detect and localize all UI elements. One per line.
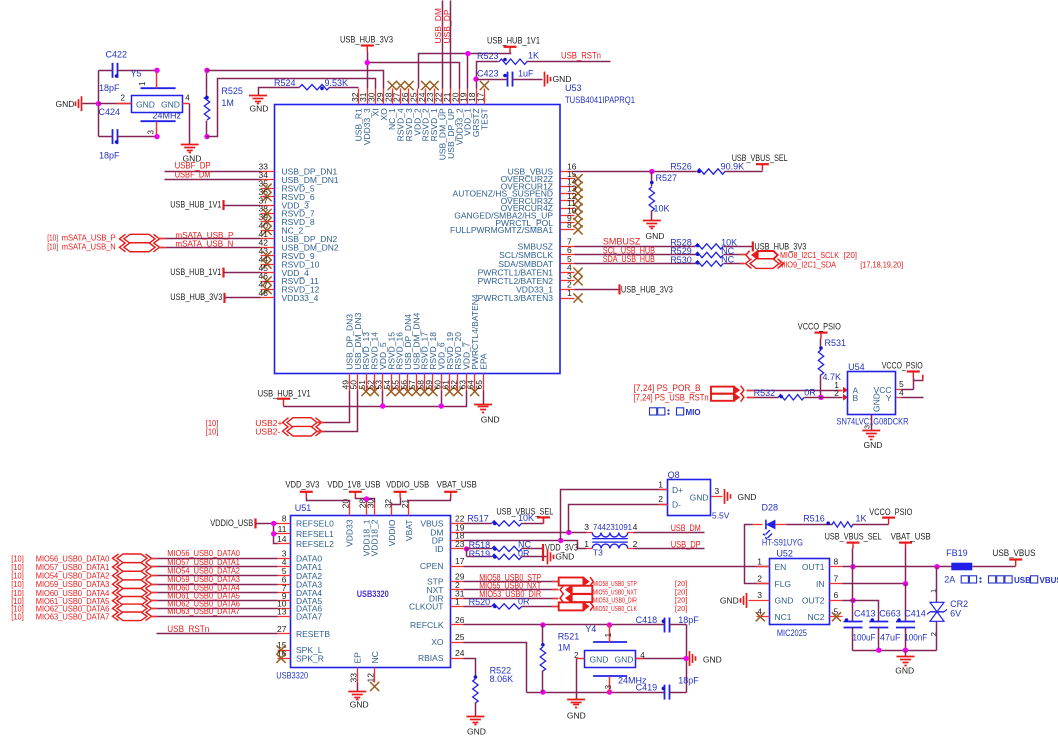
U53 pin 62 RSVD_20 xyxy=(457,374,459,391)
wire C424 right lead xyxy=(118,136,157,138)
junction R525 top xyxy=(204,68,209,73)
U51 pin 15 SPK_L xyxy=(278,650,291,652)
offpage connector MIO53_USB0_DIR xyxy=(560,594,564,603)
ground below EPA xyxy=(474,404,492,406)
U51 pin 5 DATA2 xyxy=(278,575,291,577)
offpage connector MIO59_USB0_DATA3 xyxy=(117,580,147,589)
U53 pin 10 GANGED/SMBA2/HS_UP xyxy=(561,215,575,217)
svg-text:USB_HUB_3V3: USB_HUB_3V3 xyxy=(170,292,222,302)
svg-text:USB_DP: USB_DP xyxy=(671,540,701,550)
resistor R521 1M xyxy=(542,625,544,647)
op IC U53 TUSB4041 box xyxy=(275,105,561,374)
U53 pin 11 OVERCUR4Z xyxy=(561,208,575,210)
svg-text:Y5: Y5 xyxy=(131,69,142,79)
svg-text:8.06K: 8.06K xyxy=(490,674,514,684)
wire bottom rail Y4 xyxy=(527,692,665,694)
svg-text:VBAT: VBAT xyxy=(404,520,414,542)
svg-text:VDD_1V8_USB: VDD_1V8_USB xyxy=(327,480,380,490)
svg-text:4: 4 xyxy=(899,387,904,397)
U51 pin 29 STP xyxy=(451,581,464,583)
svg-text:USB_HUB_3V3: USB_HUB_3V3 xyxy=(340,34,393,44)
U53 pin 48 VDD33_4 xyxy=(261,297,275,299)
wire right vertical xyxy=(686,625,688,693)
wire MIO58_USB0_STP xyxy=(464,581,559,583)
junction Y4 pin1 top xyxy=(607,622,612,627)
svg-text:Y4: Y4 xyxy=(585,624,596,634)
U51 pin 20 VDD33 xyxy=(349,503,351,516)
wire RBIAS xyxy=(464,659,476,679)
wire C418 right xyxy=(670,624,687,626)
wire USB_DM out xyxy=(634,532,705,534)
svg-text:VCCO_PSIO: VCCO_PSIO xyxy=(882,361,923,371)
svg-text:NC1: NC1 xyxy=(775,612,792,622)
svg-text:3: 3 xyxy=(757,590,762,600)
capacitor C422 xyxy=(112,63,114,78)
U54 pin 1 A arrow xyxy=(843,387,848,394)
svg-text:2: 2 xyxy=(929,632,938,636)
wire USB_DP to pin21 xyxy=(450,1,452,89)
svg-text:13: 13 xyxy=(277,607,287,617)
U51 pin 9 DATA5 xyxy=(278,600,291,602)
svg-text:1: 1 xyxy=(658,480,663,490)
wire MIO57_USB0_DATA1 xyxy=(151,566,278,568)
U53 pin 52 RSVD_14 xyxy=(374,374,376,391)
svg-text:USB3320: USB3320 xyxy=(276,670,308,680)
U51 pin 4 DATA1 xyxy=(278,566,291,568)
svg-text:REFCLK: REFCLK xyxy=(410,620,444,630)
junction Y5 pin1 top xyxy=(154,68,159,73)
svg-text:GND: GND xyxy=(136,100,155,110)
svg-text:U51: U51 xyxy=(295,503,312,513)
svg-text:mSATA_USB_N: mSATA_USB_N xyxy=(175,239,233,249)
wire VDDIO to pin32 xyxy=(392,498,401,505)
wire vbus_sel down xyxy=(852,567,854,622)
svg-text:17: 17 xyxy=(476,92,486,102)
U53 pin 8 FULLPWRMGMTZ/SMBA1 xyxy=(561,229,575,231)
svg-text:Q8: Q8 xyxy=(668,470,680,480)
junction rail C663 xyxy=(876,648,881,653)
svg-text:2: 2 xyxy=(757,573,762,583)
svg-text:NC2: NC2 xyxy=(807,612,824,622)
svg-text:GND: GND xyxy=(481,414,500,424)
wire REFSEL1 stub xyxy=(274,533,278,535)
wire R517 to flag xyxy=(522,523,544,525)
svg-text:GND: GND xyxy=(738,492,757,502)
wire XO net to pin29 xyxy=(207,71,384,89)
U51 pin 30 VDD18_2 xyxy=(374,503,376,516)
svg-text:18pF: 18pF xyxy=(99,83,120,93)
junction OUT1 cr2 xyxy=(934,564,939,569)
choke T3 core xyxy=(592,538,628,540)
svg-text:9.53K: 9.53K xyxy=(325,78,349,88)
U52 pin 5 NC2 xyxy=(830,616,843,618)
svg-text:GND: GND xyxy=(567,711,586,721)
U52 pin 6 OUT2 xyxy=(830,600,843,602)
svg-text:27: 27 xyxy=(277,624,287,634)
svg-text:24: 24 xyxy=(455,648,465,658)
U53 pin 22 USB_DM_UP xyxy=(442,89,444,105)
U51 pin 28 VDD18_1 xyxy=(366,503,368,516)
U53 pin 37 VDD_3 xyxy=(261,205,275,207)
wire REFCLK row xyxy=(464,624,665,626)
junction Y4 pin3 bottom xyxy=(607,689,612,694)
note jie MIO xyxy=(650,408,657,415)
svg-text:D+: D+ xyxy=(672,485,683,495)
svg-text:R532: R532 xyxy=(754,388,776,398)
wire EPA to ground xyxy=(483,391,485,405)
svg-text:2: 2 xyxy=(658,494,663,504)
offpage connector MIO60_USB0_DATA4 xyxy=(117,589,147,598)
U53 pin 2 VDD33_1 xyxy=(561,289,575,291)
resistor R518 NC xyxy=(467,548,492,550)
crystal Y4 xyxy=(585,651,636,668)
offpage connector MIO57_USB0_DATA1 xyxy=(117,563,147,572)
offpage connector MIO56_USB0_DATA0 xyxy=(117,554,147,563)
U53 pin 55 RSVD_16 xyxy=(399,374,401,391)
U53 pin 42 USB_DM_DN2 xyxy=(261,247,275,249)
ground left of Y5 xyxy=(81,96,83,111)
resistor R520 0R xyxy=(464,606,492,608)
junction GRSTZ C423 xyxy=(473,76,478,81)
wire FLG up xyxy=(745,525,770,584)
ground at R519 xyxy=(547,549,549,564)
svg-text:B: B xyxy=(853,393,859,403)
wire USB_DP out xyxy=(634,548,705,550)
svg-text:1: 1 xyxy=(604,632,613,637)
svg-text:MIO: MIO xyxy=(686,408,701,417)
svg-text:VDD33_4: VDD33_4 xyxy=(282,293,319,303)
resistor R529 NC xyxy=(695,252,723,257)
svg-text:4: 4 xyxy=(633,522,638,532)
capacitor C414 100nF xyxy=(896,621,915,623)
svg-text:MIO58_USB0_STP: MIO58_USB0_STP xyxy=(593,581,637,588)
svg-text:1: 1 xyxy=(567,288,572,298)
wire SCL_USB_HUB xyxy=(575,254,696,256)
offpage connector MIO61_USB0_DATA5 xyxy=(117,597,147,606)
power flag VDD_3V3 id xyxy=(542,544,544,561)
offpage connector mSATA_USB_N xyxy=(124,243,155,252)
svg-text:REFSEL2: REFSEL2 xyxy=(296,539,334,549)
svg-text:GND: GND xyxy=(690,493,709,503)
offpage connector MIO63_USB0_DATA7 xyxy=(117,612,147,621)
svg-text:MIO55_USB0_NXT: MIO55_USB0_NXT xyxy=(593,589,638,596)
svg-text:65: 65 xyxy=(474,380,484,390)
wire pin53 to rail xyxy=(382,391,384,407)
wire R519 to ground xyxy=(522,556,547,558)
svg-text:[17,18,19,20]: [17,18,19,20] xyxy=(860,261,903,270)
offpage connector MIO55_USB0_NXT xyxy=(560,585,564,594)
wire VDD_3V3 to pin20 xyxy=(307,498,350,503)
svg-text:TEST: TEST xyxy=(479,108,489,130)
svg-text:VDDIO_USB: VDDIO_USB xyxy=(386,480,429,490)
resistor R522 8.06K xyxy=(474,675,478,679)
svg-text:VCCO_PSIO: VCCO_PSIO xyxy=(869,507,912,517)
U54 pin 4 Y xyxy=(897,397,902,399)
Y4 pin 1 xyxy=(609,625,611,643)
junction Y5 pin3 bottom xyxy=(154,134,159,139)
Y5 pin 4 xyxy=(183,103,190,105)
wire VDD_1V8 to pins28/30 xyxy=(356,498,375,503)
wire Y4 pin2 down xyxy=(576,659,578,700)
wire cap ground rail xyxy=(853,650,937,652)
U51 pin 2 NXT xyxy=(451,589,464,591)
wire pin60 to rail xyxy=(441,391,443,407)
U53 pin 15 OVERCUR2Z xyxy=(561,178,575,180)
svg-text:FLG: FLG xyxy=(775,579,792,589)
svg-text:VBAT_USB: VBAT_USB xyxy=(437,480,477,490)
svg-text:VDDIO: VDDIO xyxy=(387,519,397,546)
U53 pin 65 EPA xyxy=(483,374,485,391)
svg-text:U53: U53 xyxy=(565,83,582,93)
svg-text:USB2-: USB2- xyxy=(255,427,280,437)
svg-text:C418: C418 xyxy=(636,615,658,625)
svg-text:D28: D28 xyxy=(762,503,779,513)
U54 pin 5 VCC xyxy=(897,389,902,391)
svg-text:100nF: 100nF xyxy=(904,632,927,642)
junction R527 top xyxy=(649,169,654,174)
svg-text:USB: USB xyxy=(1014,576,1031,585)
junction DP D+ xyxy=(558,538,563,543)
svg-text:USB_RSTn: USB_RSTn xyxy=(561,50,601,60)
ground below Y4 xyxy=(567,699,585,701)
ground below R527 xyxy=(643,220,661,222)
U51 pin 7 DATA4 xyxy=(278,592,291,594)
Y4 pin 4 xyxy=(636,658,687,660)
svg-text:3: 3 xyxy=(863,425,872,429)
svg-text:USB_RSTn: USB_RSTn xyxy=(167,624,209,634)
U54 pin 2 B arrow xyxy=(843,394,848,401)
svg-text:MIO63_USB0_DATA7: MIO63_USB0_DATA7 xyxy=(167,606,240,616)
ground below U54 xyxy=(862,430,880,432)
U53 pin 59 RSVD_18 xyxy=(432,374,434,391)
U53 pin 17 TEST xyxy=(484,89,486,105)
U53 pin 29 XO xyxy=(383,89,385,105)
svg-text:[7,24] PS_POR_B: [7,24] PS_POR_B xyxy=(634,383,701,393)
Y5 pin 1 xyxy=(156,71,158,89)
U53 pin 12 OVERCUR3Z xyxy=(561,200,575,202)
U53 pin 5 SDA/SMBDAT xyxy=(561,263,575,265)
U53 pin 32 USB_R1 xyxy=(358,89,360,105)
svg-text:[10]: [10] xyxy=(206,427,219,437)
svg-text:[10]: [10] xyxy=(11,611,23,621)
svg-text:1: 1 xyxy=(584,539,589,549)
wire USB_HUB_1V1 rail xyxy=(419,53,511,89)
U53 pin 20 VDD33_2 xyxy=(459,89,461,105)
svg-text:GND: GND xyxy=(250,104,269,114)
U51 pin 13 DATA7 xyxy=(278,616,291,618)
junction R525 bottom xyxy=(204,134,209,139)
svg-text:R519: R519 xyxy=(469,549,491,559)
svg-text:0R: 0R xyxy=(518,596,530,606)
svg-text:2: 2 xyxy=(834,388,839,398)
svg-text:3: 3 xyxy=(715,486,720,496)
offpage connector MIO58_USB0_STP xyxy=(559,578,584,586)
svg-text:EP: EP xyxy=(353,652,363,664)
U53 pin 27 RSVD_4 xyxy=(400,89,402,105)
junction rail C414 xyxy=(903,648,908,653)
wire C424 left lead xyxy=(99,136,113,138)
svg-text:14: 14 xyxy=(277,534,287,544)
wire C422 left lead xyxy=(99,70,113,72)
U53 pin 58 RSVD_17 xyxy=(424,374,426,391)
svg-text:T3: T3 xyxy=(593,548,603,558)
svg-text:GND: GND xyxy=(720,596,739,606)
capacitor C419 18pF xyxy=(664,685,666,700)
svg-text:VBAT_USB: VBAT_USB xyxy=(891,531,931,541)
U53 pin 16 USB_VBUS xyxy=(561,171,575,173)
junction 3V3 pin31 xyxy=(365,60,370,65)
U51 pin 1 CLKOUT xyxy=(451,606,464,608)
wire MIO55_USB0_NXT xyxy=(464,589,559,591)
svg-text:GND: GND xyxy=(590,654,609,664)
junction R521 top xyxy=(540,622,545,627)
wire MIO62_USB0_DATA6 xyxy=(151,608,278,610)
wire REFSEL bus xyxy=(274,524,278,544)
op IC U52 MIC2025 box xyxy=(770,559,830,625)
svg-text:MIO53_USB0_DIR: MIO53_USB0_DIR xyxy=(593,598,637,605)
wire USB2+ to pin49 xyxy=(317,391,350,423)
wire stub right of flag xyxy=(914,380,924,382)
U53 pin 45 VDD_4 xyxy=(261,272,275,274)
U53 pin 7 SMBUSZ xyxy=(561,246,575,248)
diode D28 LED xyxy=(753,524,763,526)
offpage connector MIO52_USB0_CLK xyxy=(559,602,584,610)
U53 pin 51 RSVD_13 xyxy=(366,374,368,391)
svg-text:FULLPWRMGMTZ/SMBA1: FULLPWRMGMTZ/SMBA1 xyxy=(450,225,553,235)
svg-text:GND: GND xyxy=(555,552,574,562)
svg-text:48: 48 xyxy=(259,288,269,298)
wire DM row xyxy=(464,532,587,534)
U51 pin 12 NC xyxy=(374,668,376,683)
capacitor C663 47uF xyxy=(869,621,888,623)
offpage connector mSATA_USB_P xyxy=(124,234,155,243)
U53 pin 53 VDD_5 xyxy=(382,374,384,391)
wire IN row xyxy=(843,583,906,585)
junction OUT2 c413 xyxy=(850,598,855,603)
svg-text:18pF: 18pF xyxy=(99,151,120,161)
U51 pin 19 DM xyxy=(451,532,464,534)
U51 pin 10 DATA6 xyxy=(278,608,291,610)
wire VDD bottom rail xyxy=(284,391,467,407)
U51 pin 11 REFSEL1 xyxy=(278,533,291,535)
svg-text:MIC2025: MIC2025 xyxy=(777,628,807,638)
wire R529 to MIO8 xyxy=(724,254,747,256)
junction right vertical Y4 xyxy=(683,656,688,661)
resistor R531 4.7K xyxy=(820,339,822,351)
svg-text:25: 25 xyxy=(455,632,465,642)
U51 pin 14 REFSEL2 xyxy=(278,543,291,545)
svg-text:USB_HUB_1V1: USB_HUB_1V1 xyxy=(170,267,221,277)
svg-text:1M: 1M xyxy=(558,643,571,653)
U53 pin 26 RSVD_3 xyxy=(408,89,410,105)
U53 pin 35 RSVD_5 xyxy=(261,188,275,190)
U52 pin 4 NC1 xyxy=(757,616,770,618)
wire R518 to VDD_3V3 flag xyxy=(522,548,543,550)
wire PS_USB_RSTn to R532 xyxy=(747,397,779,399)
svg-text:GND: GND xyxy=(615,654,634,664)
svg-text:HT-S91UYG: HT-S91UYG xyxy=(762,538,803,548)
wire mSATA_USB_N xyxy=(159,247,261,249)
svg-text:MIO63_USB0_DATA7: MIO63_USB0_DATA7 xyxy=(36,611,110,621)
U53 pin 30 XI xyxy=(375,89,377,105)
wire CPEN to EN xyxy=(464,566,770,568)
U52 pin 8 OUT1 xyxy=(830,566,843,568)
Y5 pin 2 xyxy=(99,103,132,105)
svg-text:R521: R521 xyxy=(558,632,580,642)
svg-text:PWRCTL3/BATEN3: PWRCTL3/BATEN3 xyxy=(478,293,554,303)
svg-text:D-: D- xyxy=(672,500,681,510)
junction DM D- xyxy=(566,530,571,535)
U53 pin 47 RSVD_12 xyxy=(261,289,275,291)
svg-text:1K: 1K xyxy=(856,514,867,524)
resistor R524 9.53K xyxy=(259,88,300,96)
svg-text:mSATA_USB_N: mSATA_USB_N xyxy=(62,241,116,251)
svg-text:VDD18_2: VDD18_2 xyxy=(370,519,380,556)
svg-text:EN: EN xyxy=(775,562,787,572)
wire MIO54_USB0_DATA2 xyxy=(151,575,278,577)
U53 pin 54 RSVD_15 xyxy=(391,374,393,391)
U51 pin 18 DP xyxy=(451,540,464,542)
svg-text:18pF: 18pF xyxy=(678,676,699,686)
svg-text:USB_HUB_1V1: USB_HUB_1V1 xyxy=(258,388,311,398)
svg-text:USB_VBUS: USB_VBUS xyxy=(993,548,1036,558)
offpage connector USB2- xyxy=(287,426,317,436)
svg-text:744231091: 744231091 xyxy=(593,522,632,532)
svg-text:11: 11 xyxy=(278,524,287,534)
Y5 pin 3 xyxy=(156,122,158,137)
offpage connector PS_POR_B xyxy=(711,387,734,394)
svg-text:CPEN: CPEN xyxy=(420,561,444,571)
svg-text:C413: C413 xyxy=(854,609,876,619)
resistor R527 10K xyxy=(651,172,653,187)
svg-text:SDA_USB_HUB: SDA_USB_HUB xyxy=(603,254,655,264)
svg-text:MIO52_USB0_CLK: MIO52_USB0_CLK xyxy=(593,606,637,613)
U53 pin 39 RSVD_8 xyxy=(261,221,275,223)
svg-text:IN: IN xyxy=(816,579,825,589)
svg-text:USB_HUB_1V1: USB_HUB_1V1 xyxy=(487,36,540,46)
note front panel vbus xyxy=(961,576,968,583)
Q8 pin 3 xyxy=(712,496,723,498)
Y4 pin 2 xyxy=(577,658,585,660)
svg-text:Y: Y xyxy=(886,393,892,403)
svg-text:GND: GND xyxy=(467,727,486,737)
U53 pin 21 USB_DP_UP xyxy=(450,89,452,105)
svg-text:[20]: [20] xyxy=(675,604,688,613)
wire USB_HUB_3V3 rail xyxy=(368,52,460,89)
U53 pin 24 RSVD_2 xyxy=(425,89,427,105)
svg-text:EPA: EPA xyxy=(478,353,488,370)
U53 pin 31 VDD33_3 xyxy=(367,89,369,105)
op IC U51 USB3320 box xyxy=(291,516,451,668)
svg-text:VDDIO_USB: VDDIO_USB xyxy=(210,518,253,528)
svg-text:7: 7 xyxy=(834,573,839,583)
svg-text:1M: 1M xyxy=(221,98,234,108)
svg-text:TUSB4041IPAPRQ1: TUSB4041IPAPRQ1 xyxy=(565,95,635,105)
Q8 pin 2 xyxy=(659,504,668,506)
svg-text:GND: GND xyxy=(56,99,75,109)
svg-text:ID: ID xyxy=(435,544,444,554)
fuse FB19 xyxy=(951,563,972,571)
svg-text:0R: 0R xyxy=(804,387,816,397)
wire vbat down to C414 xyxy=(905,584,907,622)
wire C419 right xyxy=(670,692,687,694)
wire USB_RSTn U51 xyxy=(157,633,278,635)
svg-text:C663: C663 xyxy=(879,609,901,619)
U53 pin 23 RSVD_1 xyxy=(434,89,436,105)
svg-text:USB_DM: USB_DM xyxy=(671,523,701,533)
svg-text:USB_HUB_1V1: USB_HUB_1V1 xyxy=(170,200,221,210)
svg-text:2: 2 xyxy=(121,94,126,103)
